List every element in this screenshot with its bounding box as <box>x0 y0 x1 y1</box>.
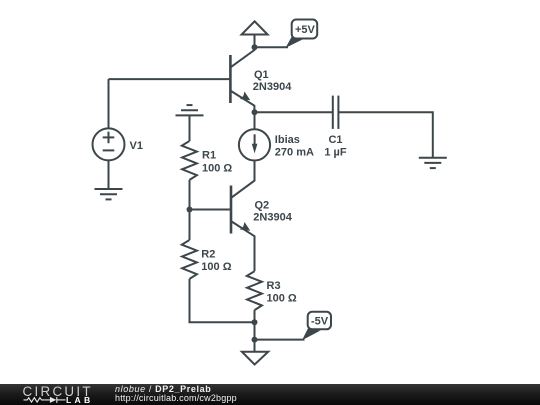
wire node D to node E <box>254 322 256 339</box>
wire node E to bottom triangle <box>254 340 256 352</box>
svg-text:V1: V1 <box>130 140 143 152</box>
svg-text:R3: R3 <box>267 280 281 292</box>
svg-text:100 Ω: 100 Ω <box>202 162 232 174</box>
resistor R1 <box>182 141 197 180</box>
transistor Q2 <box>231 180 255 242</box>
footer credit text <box>115 384 237 403</box>
wire R3 bottom to node D <box>254 310 256 322</box>
wire C1 right <box>338 112 432 158</box>
resistor R2 <box>182 240 197 279</box>
ground (right of C1) <box>419 158 447 168</box>
voltage source V1 <box>93 128 125 160</box>
svg-text:LAB: LAB <box>66 395 94 405</box>
resistor R3 <box>247 271 262 310</box>
wire Q2 emitter to R3 <box>254 242 256 271</box>
+5V supply triangle <box>242 21 268 34</box>
svg-text:100 Ω: 100 Ω <box>201 261 231 273</box>
svg-text:1 µF: 1 µF <box>324 146 347 158</box>
svg-text:Ibias: Ibias <box>275 134 300 146</box>
svg-text:Q2: Q2 <box>255 200 270 212</box>
net flag +5V <box>286 20 318 48</box>
net flag -5V <box>302 312 331 341</box>
wire Q2 base <box>190 209 232 211</box>
wire Q1 base <box>109 78 231 80</box>
svg-text:C1: C1 <box>328 134 342 146</box>
transistor Q1 <box>230 45 254 113</box>
svg-text:100 Ω: 100 Ω <box>267 293 297 305</box>
CircuitLab logo <box>0 384 110 405</box>
wire node B to R2 <box>189 210 191 241</box>
svg-text:R2: R2 <box>201 248 215 260</box>
svg-text:+5V: +5V <box>295 24 316 36</box>
svg-text:-5V: -5V <box>311 316 329 328</box>
wire C1 left <box>255 111 333 113</box>
footer bar <box>0 384 540 405</box>
wire supply triangle to node A <box>254 35 256 48</box>
node E (-5V tap) <box>252 337 258 343</box>
-5V supply triangle (down) <box>242 352 268 365</box>
current source Ibias <box>239 129 270 160</box>
svg-text:2N3904: 2N3904 <box>253 81 292 93</box>
node D (R2/R3 junction) <box>252 319 258 325</box>
node B (R1/R2/Q2 base junction) <box>187 207 193 213</box>
wire node A to +5V flag <box>255 46 289 48</box>
wire R2 bottom to node D <box>190 279 255 322</box>
svg-text:R1: R1 <box>202 150 216 162</box>
wire node C to Ibias <box>254 112 256 129</box>
wire Ibias to Q2 collector <box>254 161 256 181</box>
node A (Q1 collector node) <box>252 44 258 50</box>
ground (above R1, rotated 180) <box>176 105 204 115</box>
svg-text:2N3904: 2N3904 <box>253 212 292 224</box>
wire R1 bottom to node B <box>189 180 191 210</box>
svg-text:270 mA: 270 mA <box>275 146 314 158</box>
wire V1 top lead <box>108 79 110 128</box>
wire V1 bottom lead <box>108 160 110 189</box>
node C (Q1 emitter / Ibias / C1 junction) <box>252 109 258 115</box>
capacitor C1 <box>333 96 339 129</box>
wire ground to R1 <box>189 115 191 141</box>
wire node E to -5V flag <box>255 339 305 341</box>
svg-text:Q1: Q1 <box>254 69 269 81</box>
ground (below V1) <box>95 189 123 199</box>
